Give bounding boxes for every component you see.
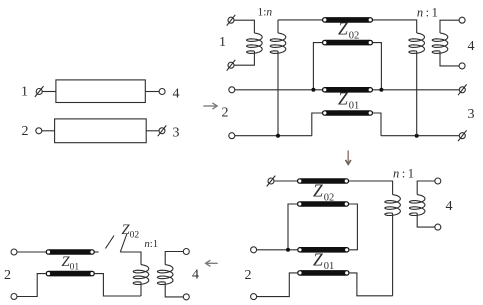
svg-text:2: 2 <box>4 268 11 283</box>
svg-text:n : 1: n : 1 <box>393 166 414 180</box>
svg-text:n : 1: n : 1 <box>417 6 438 20</box>
svg-text:3: 3 <box>173 125 180 140</box>
svg-text:4: 4 <box>173 86 180 101</box>
svg-text:2: 2 <box>222 105 229 120</box>
svg-text:2: 2 <box>245 268 252 283</box>
svg-text:1: 1 <box>219 35 226 50</box>
svg-text:4: 4 <box>468 39 475 54</box>
svg-text:2: 2 <box>22 124 29 139</box>
svg-text:3: 3 <box>468 107 475 122</box>
svg-text:n:1: n:1 <box>144 238 158 250</box>
svg-text:1: 1 <box>21 85 28 100</box>
svg-text:4: 4 <box>192 267 199 282</box>
svg-text:1:n: 1:n <box>257 7 272 19</box>
svg-text:4: 4 <box>446 199 453 214</box>
